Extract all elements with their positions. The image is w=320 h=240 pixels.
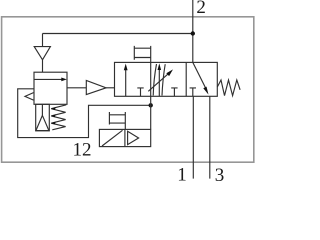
- throttle right restriction curve: [162, 64, 165, 95]
- regulator flow arrow: [35, 78, 63, 80]
- regulator spring: [51, 105, 66, 130]
- regulator poppet stem: [41, 104, 43, 115]
- pilot valve actuator ladder: [109, 112, 125, 129]
- valve pilot actuator ladder: [134, 46, 150, 60]
- exhaust vent triangle: [34, 47, 50, 60]
- valve blocked port T1: [137, 88, 143, 96]
- valve blocked port T2: [171, 88, 177, 96]
- wire regulator feedback loop: [18, 89, 151, 138]
- valve V1 body: [115, 62, 218, 96]
- pilot valve diagonal path: [102, 130, 123, 146]
- wire pilot branch horizontal to vent: [43, 33, 193, 35]
- valve position divider right: [185, 62, 187, 96]
- valve blocked port T3: [190, 88, 196, 96]
- enclosure box (assembly boundary): [2, 17, 254, 162]
- svg-text:3: 3: [215, 165, 225, 182]
- node pilot junction: [149, 103, 153, 107]
- valve exhaust diagonal: [193, 62, 206, 88]
- valve pilot stem vertical (through body): [150, 46, 152, 129]
- wire vent drop: [42, 34, 44, 47]
- wire port 3 vertical: [209, 96, 211, 178]
- wire port 2 vertical: [192, 0, 194, 62]
- svg-text:2: 2: [196, 0, 206, 18]
- regulator poppet cone: [36, 115, 49, 130]
- svg-text:1: 1: [177, 165, 187, 183]
- throttle arrow up: [158, 69, 160, 96]
- booster nozzle triangle: [86, 81, 106, 95]
- wire port 1 vertical: [192, 96, 194, 178]
- regulator pilot cylinder: [36, 104, 50, 131]
- valve flow arrow up: [125, 69, 127, 96]
- throttle left restriction curve: [153, 64, 156, 96]
- svg-text:12: 12: [73, 140, 92, 161]
- wire nozzle to valve: [106, 87, 114, 89]
- pilot valve V2 body: [99, 129, 150, 146]
- pilot valve flow triangle: [128, 131, 139, 144]
- node junction on port 2 line: [191, 31, 195, 35]
- pilot valve divider: [124, 129, 126, 146]
- wire regulator output: [67, 87, 86, 89]
- regulator R1 body: [34, 72, 67, 104]
- wire vent to regulator: [42, 60, 44, 72]
- regulator relief arrowhead: [25, 93, 34, 101]
- valve return spring: [217, 80, 240, 96]
- throttle adjust arrow: [148, 74, 168, 92]
